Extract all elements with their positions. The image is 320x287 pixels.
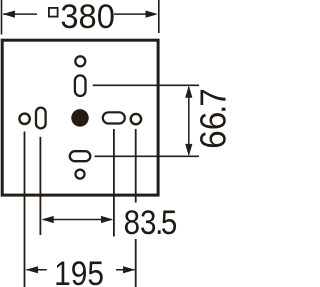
66.7 extension line bottom xyxy=(95,155,200,157)
svg-text:195: 195 xyxy=(54,254,104,287)
66.7 dim line with arrows xyxy=(185,86,192,157)
lower hole: horizontal slot xyxy=(70,151,91,161)
dim arrow right (380) xyxy=(114,11,158,18)
middle row: small circle right xyxy=(131,114,141,124)
middle row: horizontal slot xyxy=(103,112,125,123)
dim arrow left (380) xyxy=(3,11,37,18)
66.7 extension line top xyxy=(93,84,199,86)
middle row: center filled circle xyxy=(71,109,89,127)
svg-text:66.7: 66.7 xyxy=(194,88,226,149)
middle row: vertical slot left xyxy=(36,108,46,129)
extension line left (380 dim) xyxy=(1,0,3,35)
top hole: small circle xyxy=(75,56,85,66)
extension line down from right circle (195, broken for text) xyxy=(135,129,137,287)
extension line down from left circle (195) xyxy=(24,132,26,287)
extension line down from horizontal slot (83.5) xyxy=(113,129,115,237)
extension line down from left slot (83.5) xyxy=(39,137,41,235)
195 dim arrow right xyxy=(116,266,135,273)
lower hole: small circle xyxy=(76,170,85,179)
svg-text:380: 380 xyxy=(60,0,114,36)
83.5 dim double arrow xyxy=(42,216,114,223)
195 dim arrow left xyxy=(26,266,47,273)
plate outline (square 380) xyxy=(2,40,158,195)
top hole: vertical slot xyxy=(75,75,86,96)
middle row: small circle left xyxy=(19,114,29,124)
extension line right (380 dim) xyxy=(158,0,160,33)
svg-text:83.5: 83.5 xyxy=(124,203,178,241)
square symbol of 380 label xyxy=(49,8,58,17)
